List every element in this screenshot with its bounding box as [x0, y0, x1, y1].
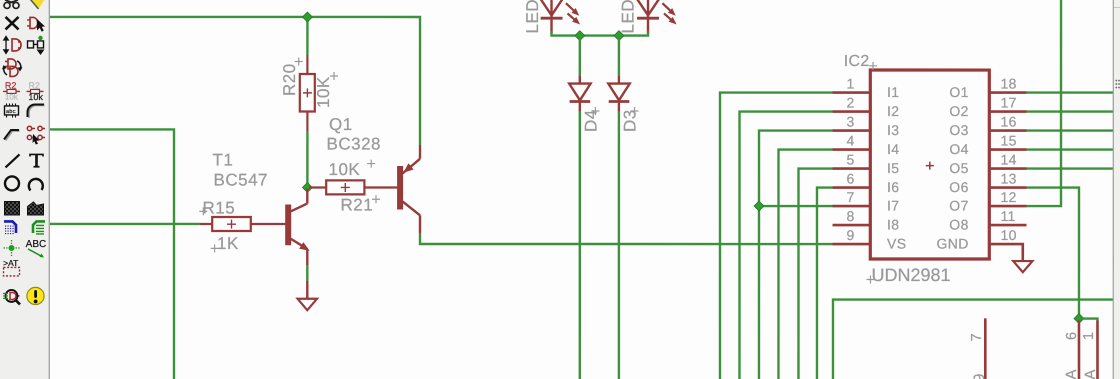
transistor Q1 BC328: [398, 145, 420, 233]
toolbar icon: junction: [3, 240, 19, 256]
junction at D3: [614, 31, 624, 41]
wire: left rail: [50, 129, 174, 379]
toolbar background: [0, 0, 49, 379]
svg-text:T1: T1: [213, 150, 234, 169]
wire: net to IC2 pin 5: [798, 169, 832, 379]
toolbar icon: polygon: [27, 202, 43, 215]
svg-text:6: 6: [1064, 332, 1080, 340]
svg-text:1: 1: [847, 76, 855, 92]
toolbar icon: miter (bevel): [4, 130, 20, 141]
svg-text:O6: O6: [949, 179, 968, 195]
svg-text:10K: 10K: [329, 160, 361, 179]
toolbar icon: net: [33, 221, 45, 234]
wire: bottom rail: [833, 300, 1113, 379]
resistor R15: [200, 217, 286, 231]
svg-text:7: 7: [969, 333, 985, 341]
toolbar icon: cut (scissors, clipped at top): [4, 0, 19, 8]
wire: net to IC2 pin 7: [759, 205, 833, 207]
svg-text:I4: I4: [887, 141, 899, 157]
svg-text:UDN2981: UDN2981: [871, 265, 950, 285]
origin cross of D4 label: [591, 107, 599, 115]
svg-text:1: 1: [1081, 332, 1097, 340]
wire: bus to D3 anode: [618, 36, 620, 76]
svg-text:ABC: ABC: [26, 239, 47, 250]
connector pin 7 stub: [984, 318, 987, 379]
wire: O7 net up to top edge: [1026, 0, 1061, 206]
svg-text:Q1: Q1: [329, 115, 353, 134]
svg-text:10k: 10k: [5, 92, 19, 101]
connector pin 1 stub: [1096, 321, 1099, 379]
junction pin3 net / pin7 net: [754, 201, 764, 211]
svg-text:10k: 10k: [28, 92, 43, 102]
wire: O4 net to right edge: [1027, 148, 1114, 150]
svg-text:A: A: [1063, 370, 1080, 379]
junction at D4: [575, 31, 585, 41]
wire: T1 emitter to ground: [306, 265, 308, 281]
svg-text:4: 4: [847, 133, 855, 149]
diode D4: [569, 76, 590, 112]
svg-text:O2: O2: [949, 103, 968, 119]
svg-text:9: 9: [846, 227, 854, 243]
origin cross of IC2 label: [869, 62, 877, 70]
origin cross of R21 name: [372, 195, 380, 203]
svg-text:I6: I6: [887, 179, 899, 195]
svg-text:O4: O4: [949, 141, 968, 157]
wire: net to IC2 pin 6: [817, 188, 833, 379]
svg-text:D4: D4: [581, 109, 600, 132]
toolbar icon: rect: [4, 201, 19, 215]
toolbar icon: wire: [6, 154, 20, 167]
svg-text:I3: I3: [887, 122, 899, 138]
toolbar icon: replace/gateswap: [2, 59, 23, 77]
svg-text:LED: LED: [523, 0, 542, 33]
svg-text:15: 15: [1001, 133, 1017, 149]
toolbar icon: invoke: [28, 36, 45, 55]
origin cross of D3 label: [631, 107, 639, 115]
wire: LED cathode bus: [552, 31, 649, 36]
junction at T1 collector node: [302, 183, 312, 193]
IC2 pin 10 GND to ground: [989, 244, 1032, 272]
svg-text:BC328: BC328: [327, 134, 381, 153]
wire: base input to R15: [50, 223, 200, 225]
svg-text:GND: GND: [936, 236, 968, 252]
toolbar icon: name (R2 red): [3, 80, 20, 101]
svg-text:>AT: >AT: [3, 258, 18, 268]
connector pin 6 stub: [1078, 321, 1081, 379]
toolbar icon: errors: [27, 287, 44, 304]
IC2 left pins 1-9: [832, 93, 870, 245]
IC2 right pins 18-11: [989, 93, 1026, 226]
toolbar icon: arc: [29, 179, 43, 191]
toolbar icon: smash: [5, 103, 19, 117]
LED 1: [541, 0, 580, 33]
svg-text:9: 9: [971, 374, 988, 379]
svg-text:BC547: BC547: [214, 170, 268, 189]
svg-text:I2: I2: [887, 103, 899, 119]
svg-text:I5: I5: [887, 160, 899, 176]
svg-text:O8: O8: [949, 217, 968, 233]
svg-text:R21: R21: [340, 195, 373, 214]
svg-text:18: 18: [1001, 76, 1017, 92]
toolbar icon: erc: [3, 290, 20, 305]
svg-text:I8: I8: [887, 217, 899, 233]
svg-text:IC2: IC2: [844, 53, 870, 70]
toolbar icon: miter (round): [28, 104, 45, 118]
svg-text:LED: LED: [619, 0, 638, 34]
origin cross of R15 name: [199, 207, 207, 215]
wire: O1 net to right edge: [1027, 91, 1114, 93]
svg-text:11: 11: [1000, 208, 1015, 224]
toolbar icon: delete (X): [6, 17, 19, 30]
wire: net to IC2 pin 4: [778, 150, 832, 379]
resistor R21: [309, 180, 398, 194]
svg-text:2: 2: [847, 95, 855, 111]
svg-text:5: 5: [847, 152, 855, 168]
toolbar icon: bus: [4, 221, 16, 234]
wire: net to IC2 pin 3: [759, 131, 833, 379]
svg-text:1K: 1K: [217, 234, 239, 253]
wire: bus to D4 anode: [579, 36, 581, 76]
junction at connector pin 6: [1074, 314, 1084, 324]
IC IC2 UDN2981: [870, 70, 989, 259]
toolbar icon: circle: [5, 176, 19, 190]
origin cross of R20 name: [295, 57, 303, 65]
ground symbol below T1: [298, 281, 317, 310]
LED 2: [637, 0, 676, 33]
wire: +12V top rail to Q1 emitter: [50, 17, 420, 145]
svg-text:A: A: [1082, 370, 1099, 379]
svg-text:VS: VS: [887, 236, 906, 252]
wire: link to connector pin 1: [1079, 319, 1098, 322]
wire: O5 net to right edge: [1027, 167, 1114, 169]
svg-text:O7: O7: [949, 198, 968, 214]
svg-text:R20: R20: [280, 63, 299, 96]
svg-text:13: 13: [1001, 171, 1017, 187]
svg-text:17: 17: [1001, 95, 1017, 111]
diode D3: [608, 76, 629, 112]
svg-text:O5: O5: [949, 160, 968, 176]
toolbar icon: value (10k black): [27, 80, 44, 102]
wire: net to IC2 pin 2: [739, 112, 832, 379]
origin cross of R15 value: [211, 244, 219, 252]
wire: O2 net to right edge: [1027, 110, 1114, 112]
svg-text:I1: I1: [887, 84, 899, 100]
svg-text:16: 16: [1001, 114, 1017, 130]
resistor R20: [300, 55, 315, 131]
svg-text:7: 7: [846, 189, 854, 205]
origin cross of UDN2981 label: [866, 276, 874, 284]
origin cross of R20 value: [330, 72, 338, 80]
toolbar icon: add (gate with cursor): [27, 17, 45, 31]
toolbar icon: label: [26, 239, 47, 257]
origin cross inside IC2: [926, 162, 934, 170]
junction at R20 / rail: [302, 12, 312, 22]
toolbar icon: split (pins with cursor): [27, 126, 45, 144]
svg-text:I7: I7: [887, 198, 899, 214]
wire: O6 net down to connector: [1026, 188, 1079, 319]
toolbar icon: attribute: [3, 258, 19, 276]
toolbar icon: pinswap: [4, 36, 21, 53]
toolbar icon: text: [30, 154, 43, 166]
svg-text:10: 10: [1000, 227, 1016, 243]
wire: D4 cathode down: [579, 112, 581, 379]
svg-text:O1: O1: [949, 84, 968, 100]
wire: net to IC2 pin 1: [720, 93, 833, 379]
svg-text:10K: 10K: [314, 76, 333, 108]
wire: R20 top lead to rail: [306, 17, 308, 55]
svg-text:14: 14: [1001, 152, 1017, 168]
wire: O3 net to right edge: [1027, 129, 1114, 131]
wire: R20 bottom to T1 collector node: [306, 131, 308, 188]
wire: Q1 collector to IC2 VS pin: [420, 233, 833, 244]
svg-text:8: 8: [846, 208, 854, 224]
svg-text:12: 12: [1000, 189, 1016, 205]
svg-text:R15: R15: [202, 198, 235, 217]
svg-text:abc: abc: [6, 108, 16, 115]
svg-text:3: 3: [847, 114, 855, 130]
scrollbar strip: [1113, 0, 1120, 379]
svg-text:D3: D3: [621, 109, 640, 132]
svg-text:6: 6: [847, 171, 855, 187]
svg-text:O3: O3: [949, 122, 968, 138]
origin cross of R21 value: [367, 160, 375, 168]
transistor T1 BC547: [286, 188, 309, 265]
wire: D3 cathode down: [618, 112, 620, 379]
toolbar icon: paste (glue bottle, clipped at top): [30, 0, 45, 9]
